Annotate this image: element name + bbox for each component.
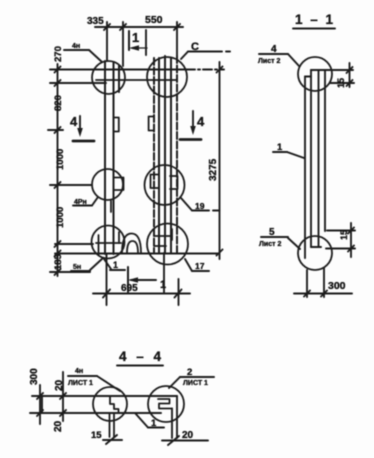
main view: top dimension line: [95, 22, 183, 66]
1-1 top circle: [298, 57, 332, 91]
svg-text:5н: 5н: [73, 264, 81, 271]
extension line y130: [48, 129, 63, 131]
right bottom detail F: [154, 229, 172, 246]
right middle tab details: [151, 175, 159, 189]
tick on 3275 line: [213, 210, 220, 212]
svg-text:15: 15: [339, 230, 349, 240]
1-1 top dim 15: [330, 63, 354, 87]
horizontal axis line (top level): [50, 69, 186, 71]
section 4 marker right: [180, 111, 201, 140]
detail circle right bottom: [147, 224, 188, 265]
detail circle left bottom: [92, 226, 125, 259]
1-1 bottom circle: [298, 236, 332, 270]
4-4 right leg: [172, 396, 177, 438]
svg-text:1000: 1000: [55, 207, 66, 228]
svg-text:ЛИСТ 1: ЛИСТ 1: [183, 380, 208, 387]
svg-text:335: 335: [87, 16, 104, 27]
svg-text:550: 550: [145, 14, 163, 26]
left middle tab detail: [114, 178, 124, 191]
top bar bottom edge: [96, 79, 177, 81]
section 4 marker left: [73, 116, 94, 141]
section cut 1 (top): [129, 31, 147, 51]
4-4 detail circle left: [93, 387, 127, 421]
4-4 detail circle right: [148, 386, 184, 422]
svg-text:300: 300: [328, 280, 346, 292]
detail circle A (left top): [92, 61, 125, 94]
4-4 dim 15: [103, 435, 122, 444]
4-4 plate: [30, 396, 177, 413]
long level line y253.5: [55, 253, 219, 255]
lifting loop between posts: [122, 234, 141, 254]
svg-text:4 – 4: 4 – 4: [119, 349, 164, 364]
right dimension 3275: [217, 62, 223, 259]
extension line y185: [50, 184, 92, 186]
left post tab: [114, 118, 119, 132]
svg-text:Лист 2: Лист 2: [258, 58, 280, 65]
extension line y244: [55, 243, 93, 245]
4-4 right fold detail: [158, 399, 172, 409]
left post centerline lower: [106, 254, 108, 305]
left post: [105, 61, 119, 254]
svg-text:1 – 1: 1 – 1: [295, 12, 335, 27]
detail circle right middle: [145, 165, 185, 205]
svg-text:20: 20: [53, 420, 64, 432]
extension line y83: [50, 82, 106, 84]
section cut 1 (bottom): [128, 267, 156, 292]
svg-text:1: 1: [160, 279, 166, 291]
svg-text:270: 270: [53, 46, 64, 62]
svg-text:185: 185: [53, 253, 64, 270]
extension line y272: [50, 271, 90, 273]
svg-text:19: 19: [195, 201, 205, 211]
svg-text:17: 17: [195, 261, 205, 271]
right post lower lines: [163, 253, 165, 293]
1-1 member: [305, 70, 353, 258]
svg-text:3275: 3275: [208, 158, 219, 181]
4-4 left dims: [37, 372, 66, 424]
svg-text:695: 695: [121, 283, 138, 294]
svg-text:4н: 4н: [72, 43, 80, 50]
svg-text:15: 15: [91, 430, 102, 441]
svg-text:4: 4: [70, 114, 78, 129]
svg-text:1000: 1000: [55, 149, 66, 170]
1-1 bottom dim 15: [326, 223, 355, 257]
svg-text:ЛИСТ 1: ЛИСТ 1: [68, 380, 93, 387]
svg-text:20: 20: [54, 379, 65, 391]
bottom dimension 695: [93, 290, 190, 298]
svg-text:Лист 2: Лист 2: [259, 241, 281, 248]
4-4 left joint detail: [110, 397, 119, 414]
right post tab: [149, 117, 154, 131]
4-4 left sheet drop: [110, 413, 115, 437]
left dimension chain line: [55, 64, 61, 276]
svg-text:1: 1: [113, 260, 118, 270]
svg-text:820: 820: [53, 95, 64, 111]
svg-text:4н: 4н: [75, 368, 83, 375]
4-4 dim 20 (right): [162, 436, 208, 445]
right post: [154, 56, 177, 253]
svg-text:4: 4: [197, 114, 205, 129]
svg-text:15: 15: [336, 78, 346, 88]
svg-text:300: 300: [29, 368, 40, 385]
left post small mark: [110, 201, 112, 212]
left bottom detail: [96, 232, 121, 255]
detail circle C (right top): [147, 57, 187, 97]
svg-text:20: 20: [182, 430, 194, 441]
svg-text:1: 1: [132, 30, 139, 45]
detail circle left middle: [92, 169, 123, 200]
1-1 bottom dim 300: [294, 268, 352, 297]
